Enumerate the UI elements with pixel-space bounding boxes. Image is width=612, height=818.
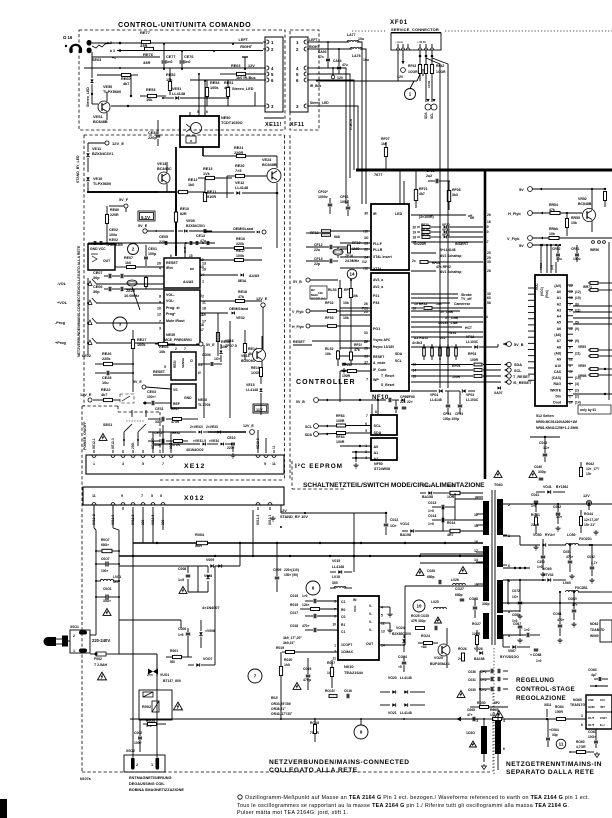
svg-text:R042: R042 (586, 462, 594, 466)
svg-text:LL4148: LL4148 (430, 398, 442, 402)
svg-text:VCC: VCC (174, 246, 178, 253)
wire gnd audio caps (163, 43, 165, 45)
svg-text:X012: X012 (184, 495, 205, 502)
svg-text:RF43: RF43 (408, 64, 416, 68)
svg-text:11: 11 (559, 742, 564, 747)
svg-text:CO61: CO61 (588, 730, 597, 734)
terminal 5V_B left (306, 278, 310, 282)
svg-text:A8: A8 (557, 345, 561, 349)
svg-text:1=5: 1=5 (178, 578, 184, 582)
svg-text:BA158: BA158 (474, 657, 485, 661)
svg-text:X012-3: X012-3 (256, 514, 260, 525)
terminal SDA left (314, 432, 319, 437)
memory ic NR50 box (535, 275, 567, 406)
svg-text:NE35: NE35 (166, 333, 175, 337)
svg-text:C0O7: C0O7 (101, 557, 110, 561)
svg-text:C012: C012 (390, 518, 398, 522)
svg-text:VE12: VE12 (235, 181, 244, 185)
svg-text:33R: 33R (143, 60, 150, 65)
svg-text:I²C EEPROM: I²C EEPROM (295, 463, 343, 470)
svg-text:DEGAUSSING COIL: DEGAUSSING COIL (129, 782, 165, 786)
connector XF11 (290, 37, 308, 112)
svg-text:1n0: 1n0 (166, 60, 173, 64)
svg-text:13: 13 (200, 265, 204, 269)
mains ladder verticals (93, 505, 95, 528)
ic MCE_PRE03R01 upper (164, 258, 200, 288)
svg-text:WR71: WR71 (583, 285, 592, 289)
secondary junction dots (535, 503, 537, 505)
wires rectifier to rail (214, 566, 216, 665)
svg-text:C019: C019 (303, 667, 311, 671)
gnd near r060 (595, 752, 600, 758)
svg-text:3k3: 3k3 (452, 193, 458, 197)
svg-text:F002: F002 (94, 657, 102, 661)
svg-text:R0O7: R0O7 (101, 538, 110, 542)
eeprom decoupling cap (394, 407, 398, 409)
svg-text:×V006: ×V006 (205, 629, 215, 633)
svg-text:VO26: VO26 (474, 647, 483, 651)
decoupling cap row 243 (88, 242, 215, 244)
warning triangle degauss (174, 702, 183, 710)
terminal V_Flyb left (306, 309, 310, 313)
wire 12V standby feed (281, 512, 354, 514)
svg-text:CF02*: CF02* (318, 190, 329, 194)
svg-text:AV1 Schaltsp: AV1 Schaltsp (440, 270, 461, 274)
svg-text:VR6B: VR6B (578, 374, 587, 378)
svg-text:8: 8 (569, 345, 571, 349)
svg-text:RE12: RE12 (188, 178, 198, 182)
svg-text:LL4148: LL4148 (172, 92, 185, 96)
svg-text:Prog*: Prog* (166, 312, 176, 316)
warning triangles smps mid (416, 569, 424, 576)
svg-text:/19: /19 (484, 225, 489, 229)
svg-text:RE21: RE21 (234, 146, 244, 150)
svg-text:100u: 100u (109, 233, 117, 237)
svg-text:R019: R019 (276, 646, 284, 650)
svg-text:470»: 470» (557, 618, 565, 622)
svg-text:25: 25 (364, 310, 368, 314)
svg-text:OR36,21°: OR36,21° (271, 707, 286, 711)
svg-text:A1: A1 (374, 451, 379, 455)
svg-text:BC848B: BC848B (262, 163, 277, 167)
svg-text:3: 3 (581, 714, 583, 718)
svg-text:VUO1: VUO1 (160, 673, 169, 677)
terminal 5V_B (503, 342, 507, 345)
svg-text:CR52: CR52 (552, 247, 561, 251)
svg-text:TV_off: TV_off (461, 297, 472, 301)
svg-text:NETZVERBUNDEN/MAINS-CONNECTED: NETZVERBUNDEN/MAINS-CONNECTED (269, 759, 410, 766)
transformer T040 secondary windings (497, 499, 503, 535)
svg-text:TLPX5600: TLPX5600 (103, 90, 121, 94)
svg-text:A7: A7 (557, 339, 561, 343)
wire secondary pin4 (502, 635, 504, 647)
svg-text:3×220R: 3×220R (414, 242, 427, 246)
svg-text:BC848C: BC848C (157, 167, 172, 171)
svg-text:OUT: OUT (103, 259, 111, 263)
isolation dash line (493, 648, 495, 775)
svg-text:V015: V015 (332, 559, 340, 563)
warning triangle ladder (103, 609, 111, 616)
svg-text:CA94: CA94 (333, 59, 342, 63)
svg-text:(11): (11) (575, 351, 581, 355)
svg-text:10k: 10k (436, 302, 442, 306)
svg-text:11V: 11V (256, 408, 263, 412)
svg-text:4,7OR: 4,7OR (576, 745, 586, 749)
svg-text:(9): (9) (575, 327, 579, 331)
svg-text:33O»: 33O» (103, 599, 111, 603)
sda scl service bus verticals (426, 58, 440, 388)
svg-text:R020: R020 (284, 658, 292, 662)
row A4/A5 diodes (241, 274, 244, 277)
c03x rows left vertical (479, 671, 481, 705)
svg-text:1»0: 1»0 (428, 522, 434, 526)
svg-text:B2: B2 (311, 288, 315, 292)
terminal 12V service (402, 62, 404, 64)
svg-text:4µ7: 4µ7 (591, 673, 597, 677)
second dashed border line (289, 135, 291, 480)
svg-text:3: 3 (484, 320, 486, 324)
svg-text:V_Flyb: V_Flyb (507, 237, 520, 241)
svg-text:5V_B: 5V_B (514, 343, 524, 347)
svg-text:RO25 CO25: RO25 CO25 (411, 614, 429, 618)
svg-text:9: 9 (159, 301, 161, 305)
svg-text:RF07: RF07 (381, 137, 390, 141)
svg-text:V_Flyb: V_Flyb (292, 310, 303, 314)
svg-text:C026: C026 (427, 569, 435, 573)
svg-text:C043: C043 (539, 441, 547, 445)
svg-text:RO27: RO27 (472, 622, 481, 626)
svg-text:100k: 100k (210, 86, 219, 90)
svg-text:58!: 58! (170, 660, 175, 664)
ic NF10 controller box upper (371, 204, 409, 270)
svg-text:RE51: RE51 (224, 81, 234, 85)
jack SE63 (87, 40, 92, 46)
svg-text:14: 14 (474, 558, 478, 562)
main rail lower (119, 555, 483, 557)
wires T030 (483, 719, 485, 726)
optocoupler feed wires (198, 74, 200, 116)
svg-text:LEFT: LEFT (239, 38, 249, 42)
svg-text:L025: L025 (431, 600, 439, 604)
svg-text:/17: /17 (484, 240, 489, 244)
svg-text:60: 60 (487, 296, 491, 300)
svg-text:330»: 330» (155, 420, 163, 424)
svg-text:Ω 16: Ω 16 (63, 35, 73, 40)
svg-text:20: 20 (157, 262, 161, 266)
svg-text:VE50: VE50 (103, 85, 112, 89)
svg-text:12»17,20°: 12»17,20° (584, 518, 600, 522)
svg-text:2x: 2x (412, 259, 416, 263)
svg-text:WRITE: WRITE (550, 388, 562, 392)
svg-text:XE12: XE12 (184, 463, 205, 470)
svg-text:V-: V- (369, 628, 372, 632)
svg-text:C065: C065 (467, 708, 475, 712)
svg-text:IF_Code: IF_Code (373, 368, 386, 372)
svg-text:A_mute: A_mute (373, 361, 386, 365)
svg-text:BG/DR 2k2: BG/DR 2k2 (311, 297, 326, 301)
svg-text:IY-BUS: IY-BUS (349, 118, 353, 130)
wire pin 15 (455, 585, 483, 587)
svg-text:RE80: RE80 (110, 208, 119, 212)
svg-text:CF01: CF01 (340, 195, 349, 199)
svg-text:100R: 100R (427, 80, 431, 88)
secondary row exits right (600, 591, 612, 593)
svg-text:-Prog: -Prog (55, 321, 66, 325)
svg-text:6k8: 6k8 (334, 235, 340, 239)
svg-text:10k: 10k (318, 291, 323, 295)
svg-text:OEM/SLand: OEM/SLand (233, 227, 253, 231)
svg-text:2: 2 (73, 634, 75, 638)
svg-text:NE30: NE30 (198, 398, 207, 402)
svg-text:10 RR32: 10 RR32 (414, 302, 427, 306)
svg-text:5: 5 (381, 613, 383, 617)
svg-text:17: 17 (569, 401, 573, 405)
svg-text:47k RF62: 47k RF62 (436, 265, 451, 269)
eeprom ic NF50 ST24W08 upper (371, 415, 397, 435)
svg-text:SENSE: SENSE (181, 358, 185, 368)
svg-text:P33: P33 (373, 301, 379, 305)
svg-text:220»(110): 220»(110) (284, 568, 299, 572)
wire secondary pin8 (503, 579, 546, 581)
svg-text:RE77: RE77 (140, 30, 151, 35)
svg-text:RE60: RE60 (121, 77, 131, 81)
warning triangle mains (98, 672, 107, 680)
terminal 12V_E (105, 141, 109, 145)
svg-text:RE03: RE03 (231, 64, 241, 68)
svg-text:SCL: SCL (374, 424, 382, 428)
svg-text:A9: A9 (557, 358, 561, 362)
svg-text:910R: 910R (207, 195, 216, 199)
circled 14 (347, 269, 357, 279)
svg-text:10u: 10u (556, 257, 562, 261)
svg-text:12: 12 (569, 339, 573, 343)
svg-text:C006: C006 (178, 627, 186, 631)
svg-text:4R7: 4R7 (447, 533, 453, 537)
svg-text:C2: C2 (341, 600, 345, 604)
stub capacitor near pin 4 (244, 57, 246, 69)
terminal V_Flyb (528, 236, 533, 241)
svg-text:680p: 680p (455, 593, 463, 597)
verticals MCE to XE12 strip (203, 345, 205, 418)
svg-text:VS: VS (173, 388, 178, 392)
svg-text:15» 21°: 15» 21° (584, 523, 596, 527)
svg-text:L060: L060 (563, 581, 571, 585)
svg-text:VOL·: VOL· (166, 299, 175, 303)
mains-connected dashed bottom border (82, 771, 490, 773)
svg-text:3: 3 (476, 719, 478, 723)
svg-text:10O»: 10O» (588, 735, 596, 739)
svg-text:1»0: 1»0 (428, 509, 434, 513)
svg-text:A1: A1 (557, 296, 561, 300)
svg-text:1»0: 1»0 (524, 628, 530, 632)
svg-text:POWER_ON/OFF: POWER_ON/OFF (83, 421, 87, 450)
svg-text:RE10: RE10 (180, 207, 189, 211)
svg-text:R017: R017 (327, 661, 335, 665)
svg-text:CE06: CE06 (93, 285, 103, 289)
svg-text:RO41: RO41 (531, 513, 540, 517)
svg-text:100»!: 100»! (147, 395, 156, 399)
svg-text:XE11!: XE11! (265, 122, 282, 128)
svg-text:CE02: CE02 (109, 228, 118, 232)
svg-text:WR50: WR50 (590, 248, 599, 252)
svg-text:SE01: SE01 (103, 423, 112, 427)
svg-text:100R: 100R (555, 710, 564, 714)
svg-text:A3: A3 (557, 308, 561, 312)
svg-text:Stereo_LED: Stereo_LED (310, 101, 329, 105)
svg-text:2×VE32!: 2×VE32! (190, 425, 203, 429)
svg-text:VO21: VO21 (388, 711, 397, 715)
svg-text:RO15!: RO15! (325, 689, 335, 693)
svg-text:3O: 3O (364, 236, 369, 240)
svg-text:RIGHT: RIGHT (240, 45, 252, 49)
svg-text:Prog· st: Prog· st (166, 306, 180, 310)
svg-text:SE63: SE63 (92, 58, 101, 62)
warning triangles regulation (457, 691, 465, 698)
svg-text:C002: C002 (134, 731, 142, 735)
svg-text:C072: C072 (512, 589, 520, 593)
svg-text:RE2!: RE2! (171, 407, 179, 411)
bold supply rail vertical (484, 170, 487, 479)
switch dashed box (120, 394, 134, 403)
svg-text:RYU×!: RYU×! (545, 533, 555, 537)
svg-text:RO60: RO60 (576, 740, 585, 744)
svg-text:VO25: VO25 (434, 656, 443, 660)
svg-text:11: 11 (92, 494, 96, 498)
svg-text:»C064: »C064 (549, 728, 559, 732)
svg-text:Mute IRout: Mute IRout (166, 319, 185, 323)
terminal 12V xf11 (331, 75, 335, 79)
svg-text:Vsync AFC: Vsync AFC (373, 338, 391, 342)
warning triangle near L025 (435, 617, 442, 623)
svg-text:6: 6 (206, 110, 208, 114)
svg-text:3k9,21°: 3k9,21° (283, 641, 295, 645)
svg-text:C016: C016 (344, 689, 352, 693)
svg-text:6E02: 6E02 (82, 354, 91, 358)
svg-text:12V: 12V (583, 494, 590, 498)
mains path to C006 (119, 619, 181, 621)
svg-text:RES!: RES! (173, 360, 177, 368)
svg-text:CSF!: CSF! (600, 716, 607, 720)
svg-text:5V: 5V (519, 244, 524, 248)
ic N010 TEA2164 box (338, 596, 379, 660)
svg-text:KE02: KE02 (109, 238, 118, 242)
warning triangle smps left (494, 471, 502, 478)
wire pins 17 14 (420, 553, 483, 555)
wire 12V service row (316, 80, 417, 82)
svg-text:17: 17 (200, 328, 204, 332)
svg-text:RRbb: RRbb (549, 227, 558, 231)
svg-text:1Vk: 1Vk (203, 172, 211, 176)
svg-text:V067: V067 (508, 649, 516, 653)
svg-text:8: 8 (484, 235, 486, 239)
svg-text:GND: GND (588, 705, 596, 709)
svg-text:an: an (190, 267, 194, 271)
svg-text:A4/A5: A4/A5 (249, 274, 259, 278)
svg-text:4×1N4007: 4×1N4007 (202, 606, 220, 610)
svg-text:LA76: LA76 (352, 54, 361, 58)
svg-text:RO24: RO24 (421, 634, 430, 638)
svg-text:4: 4 (503, 719, 505, 723)
svg-text:C036: C036 (468, 670, 476, 674)
svg-text:TEA2164#: TEA2164# (344, 670, 364, 675)
svg-text:2: 2 (200, 294, 202, 298)
svg-text:VE32: VE32 (236, 316, 245, 320)
svg-text:11: 11 (272, 445, 276, 449)
service connector pins (396, 48, 399, 50)
svg-text:12V: 12V (337, 76, 344, 80)
svg-text:2: 2 (202, 295, 204, 299)
svg-text:PLLR: PLLR (373, 248, 383, 252)
mains plug X001 (44, 637, 57, 646)
svg-text:CE76: CE76 (184, 55, 194, 59)
svg-text:47u: 47u (342, 63, 348, 67)
svg-text:47»: 47» (467, 713, 473, 717)
terminal SCL service (432, 99, 435, 102)
svg-text:VE11: VE11 (92, 147, 101, 151)
svg-text:VF04: VF04 (430, 393, 438, 397)
boxed label 11V (253, 404, 268, 413)
wire crystal to mcu (132, 287, 140, 310)
svg-text:A4: A4 (557, 315, 561, 319)
svg-text:11: 11 (272, 462, 276, 466)
svg-text:SDA: SDA (374, 431, 382, 435)
svg-text:5V_E: 5V_E (206, 343, 215, 347)
svg-text:VF18: VF18 (442, 233, 450, 237)
svg-text:10: 10 (416, 604, 422, 609)
svg-text:5Y_B: 5Y_B (293, 280, 302, 284)
svg-text:BA158: BA158 (400, 533, 411, 537)
circled 3 (113, 317, 127, 331)
svg-text:VE13: VE13 (157, 162, 166, 166)
svg-text:R014: R014 (447, 521, 455, 525)
svg-text:CONTROL-STAGE: CONTROL-STAGE (516, 686, 575, 693)
svg-text:/12: /12 (363, 267, 368, 271)
svg-text:X811: X811 (544, 703, 552, 707)
svg-text:RL53: RL53 (328, 288, 337, 292)
row 6 dots (514, 567, 516, 569)
svg-text:1k0: 1k0 (125, 261, 131, 265)
svg-text:OR33,25°/26!: OR33,25°/26! (271, 702, 291, 706)
svg-text:RF18: RF18 (421, 233, 429, 237)
XF11 dashed border box (290, 30, 319, 130)
svg-text:A2: A2 (374, 457, 379, 461)
svg-text:IR_Bus: IR_Bus (310, 84, 322, 88)
svg-text:10k: 10k (146, 98, 153, 102)
terminal H_Flyb left (306, 324, 310, 328)
svg-text:1: 1 (151, 763, 153, 767)
wire I2C bus bundle (316, 68, 346, 170)
svg-text:REGOLAZIONE: REGOLAZIONE (516, 695, 566, 702)
svg-text:TLPX5600: TLPX5600 (93, 182, 111, 186)
isolation dash line T030 (492, 690, 494, 772)
svg-text:CO27: CO27 (455, 587, 464, 591)
svg-text:Dout: Dout (553, 401, 562, 405)
svg-text:(VCC): (VCC) (540, 287, 544, 296)
svg-text:R0: R0 (341, 608, 345, 612)
svg-text:R013: R013 (447, 484, 455, 488)
svg-text:5V_E: 5V_E (133, 380, 142, 384)
svg-text:RE26: RE26 (102, 352, 112, 356)
svg-text:RO44: RO44 (584, 512, 593, 516)
svg-text:22p: 22p (314, 262, 320, 266)
svg-text:V009: V009 (206, 558, 214, 562)
svg-text:RE20: RE20 (235, 164, 245, 168)
svg-text:1O3O: 1O3O (466, 731, 475, 735)
svg-text:VO60: VO60 (543, 567, 552, 571)
svg-text:100k: 100k (236, 254, 244, 258)
svg-text:RE22: RE22 (101, 388, 111, 392)
wires to tea2164 (330, 571, 336, 573)
